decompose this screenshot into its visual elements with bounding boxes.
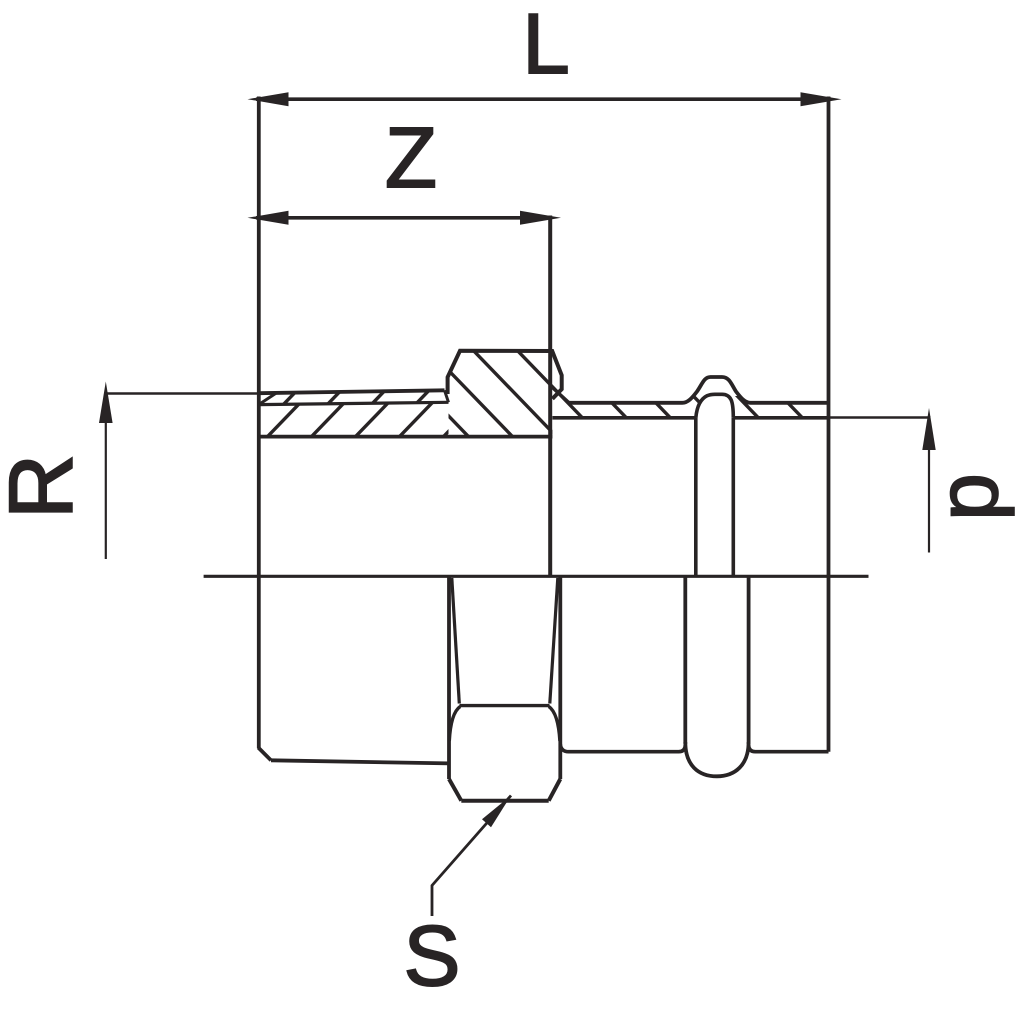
sleeve bore line right of bead [733, 416, 828, 420]
bead inner wall left [694, 418, 698, 577]
bead outer wall right lower [747, 576, 751, 744]
sleeve bottom edge right of bead [749, 745, 829, 752]
svg-text:L: L [522, 0, 569, 92]
d extension line [829, 416, 931, 418]
collar hatch [261, 312, 721, 561]
hex bottom chamfer right [549, 779, 561, 801]
hex flat edge right [550, 578, 558, 704]
sleeve bottom edge left of bead [569, 745, 686, 752]
S leader line [432, 796, 511, 917]
bead inner wall right [731, 418, 735, 577]
svg-text:d: d [933, 473, 1024, 521]
thread start chamfer [260, 393, 277, 404]
hex chamfer arc right [549, 707, 560, 742]
bead inner bump [696, 394, 734, 418]
hex flat lower edge [460, 704, 550, 707]
d arrow line [928, 450, 930, 553]
Z extension line / socket shoulder [548, 216, 552, 577]
centerline [204, 575, 869, 578]
hex left corner line [447, 576, 451, 779]
svg-text:Z: Z [385, 111, 437, 206]
thread hatch upper sub-band [88, 312, 548, 561]
hex chamfer arc left [449, 707, 460, 742]
dimension Z left arrowhead [248, 211, 289, 225]
dimension L line [256, 97, 831, 101]
dimension L right arrowhead [801, 92, 842, 106]
left extension line / left end face [257, 97, 261, 749]
thread hatch lower sub-band [104, 312, 564, 561]
lower left chamfer [258, 748, 271, 761]
hex bottom flat [461, 799, 548, 803]
dimension Z line [256, 216, 552, 220]
S leader arrowhead [482, 796, 511, 828]
hex flat edge left [452, 578, 460, 704]
thread runout step [445, 390, 449, 402]
sleeve bore line left of bead [552, 416, 695, 420]
lower body bottom edge [271, 760, 449, 763]
thread root line [259, 402, 449, 404]
R extension line [105, 392, 258, 394]
sleeve hatch [437, 312, 985, 561]
collar to sleeve transition [552, 388, 569, 403]
thread bore line [259, 435, 553, 439]
R arrowhead [99, 382, 113, 424]
hex right corner line [558, 576, 562, 779]
thread crest line [259, 390, 445, 393]
collar outline [448, 351, 562, 399]
right extension line / right end face [827, 97, 831, 752]
dimension L left arrowhead [248, 92, 289, 106]
svg-text:S: S [404, 909, 461, 1004]
d arrowhead [922, 408, 935, 450]
svg-text:R: R [0, 454, 92, 519]
hex bottom chamfer left [449, 779, 461, 801]
R arrow line [105, 423, 107, 559]
hex to sleeve fillet [560, 744, 568, 752]
dimension Z right arrowhead [520, 211, 561, 225]
bead outer wall left lower [683, 576, 687, 744]
bead rounded bottom [685, 742, 748, 776]
sleeve outer line with bead bump [569, 377, 829, 403]
